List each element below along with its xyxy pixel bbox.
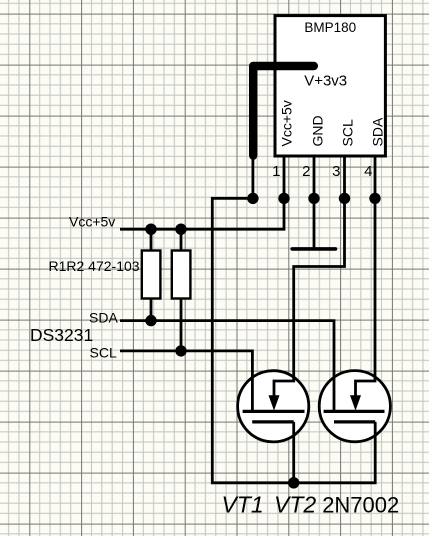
svg-text:Vcc+5v: Vcc+5v [279, 100, 295, 146]
svg-text:2: 2 [302, 163, 310, 180]
svg-text:Vcc+5v: Vcc+5v [69, 214, 115, 230]
svg-text:SCL: SCL [90, 345, 117, 361]
svg-text:2N7002: 2N7002 [322, 493, 399, 518]
svg-text:4: 4 [364, 163, 372, 180]
svg-text:1: 1 [272, 163, 280, 180]
svg-text:VT1: VT1 [222, 492, 264, 518]
svg-text:R1R2 472-103: R1R2 472-103 [49, 258, 140, 274]
svg-text:SDA: SDA [89, 310, 118, 326]
svg-text:SCL: SCL [339, 119, 355, 146]
svg-text:GND: GND [309, 115, 325, 146]
svg-text:3: 3 [332, 163, 340, 180]
svg-text:V+3v3: V+3v3 [304, 72, 347, 89]
svg-text:BMP180: BMP180 [304, 20, 356, 35]
svg-text:DS3231: DS3231 [30, 325, 93, 345]
svg-text:VT2: VT2 [274, 492, 316, 518]
svg-text:SDA: SDA [369, 117, 385, 146]
